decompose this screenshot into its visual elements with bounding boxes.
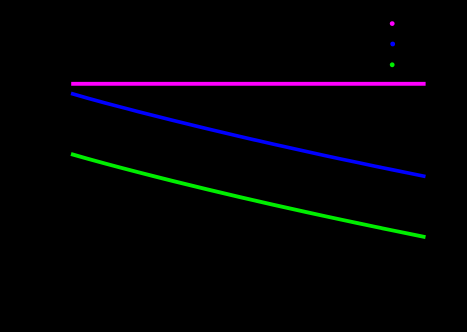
- magenta flat line (top series): [71, 82, 425, 86]
- legend marker green: [390, 62, 395, 67]
- blue decaying curve (middle series): [71, 93, 426, 176]
- legend marker blue: [390, 42, 395, 47]
- green decaying curve (bottom series): [71, 154, 426, 237]
- legend marker magenta: [390, 21, 395, 26]
